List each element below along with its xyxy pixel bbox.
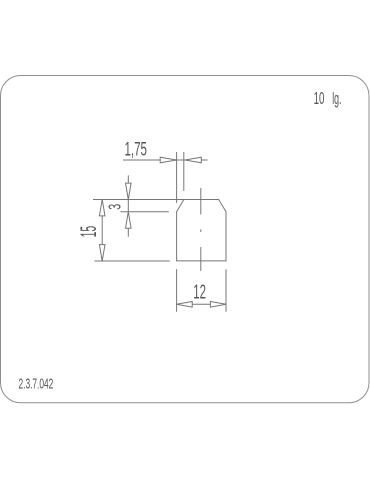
- dim 1,75 right extension line: [183, 152, 185, 191]
- dim 15 down-pointing arrowhead: [99, 245, 105, 261]
- dim 3 dimension line: [127, 175, 129, 236]
- dim 12 right-pointing arrowhead: [210, 302, 226, 308]
- dim 12 text: [193, 280, 206, 303]
- dim 3 up-pointing arrowhead: [126, 212, 132, 228]
- svg-text:3: 3: [106, 204, 125, 210]
- svg-text:15: 15: [77, 226, 101, 238]
- dim 15 dimension line: [101, 200, 103, 262]
- dim 3 text: [106, 204, 125, 210]
- label 10: [314, 89, 325, 109]
- svg-text:10: 10: [314, 89, 325, 109]
- dim 12 left extension line: [176, 269, 178, 312]
- dim 1,75 left extension line: [176, 152, 178, 203]
- profile outline: [177, 200, 226, 261]
- dim 1,75 text: [125, 138, 148, 160]
- dim 3 down-pointing arrowhead: [126, 183, 132, 199]
- dim 15 up-pointing arrowhead: [99, 200, 105, 216]
- svg-text:12: 12: [193, 280, 206, 303]
- chamfer level extension line: [121, 211, 169, 213]
- center line upper segment: [200, 188, 202, 215]
- dim 1,75 right-pointing arrowhead: [160, 157, 176, 163]
- dim 1,75 dimension line: [123, 159, 208, 161]
- top edge extension line: [93, 199, 184, 201]
- dim 12 dimension line: [177, 303, 226, 305]
- center line lower segment: [200, 247, 202, 271]
- drawing number 2.3.7.042: [18, 375, 53, 392]
- dim 12 right extension line: [225, 269, 227, 312]
- label lg.: [332, 89, 341, 108]
- dim 1,75 left-pointing arrowhead: [185, 157, 201, 163]
- dim 15 text: [77, 226, 101, 238]
- bottom edge extension line: [95, 260, 170, 262]
- svg-text:2.3.7.042: 2.3.7.042: [18, 375, 53, 392]
- svg-text:1,75: 1,75: [125, 138, 148, 160]
- center line dot: [200, 229, 202, 232]
- svg-text:lg.: lg.: [332, 89, 341, 108]
- dim 12 left-pointing arrowhead: [177, 302, 193, 308]
